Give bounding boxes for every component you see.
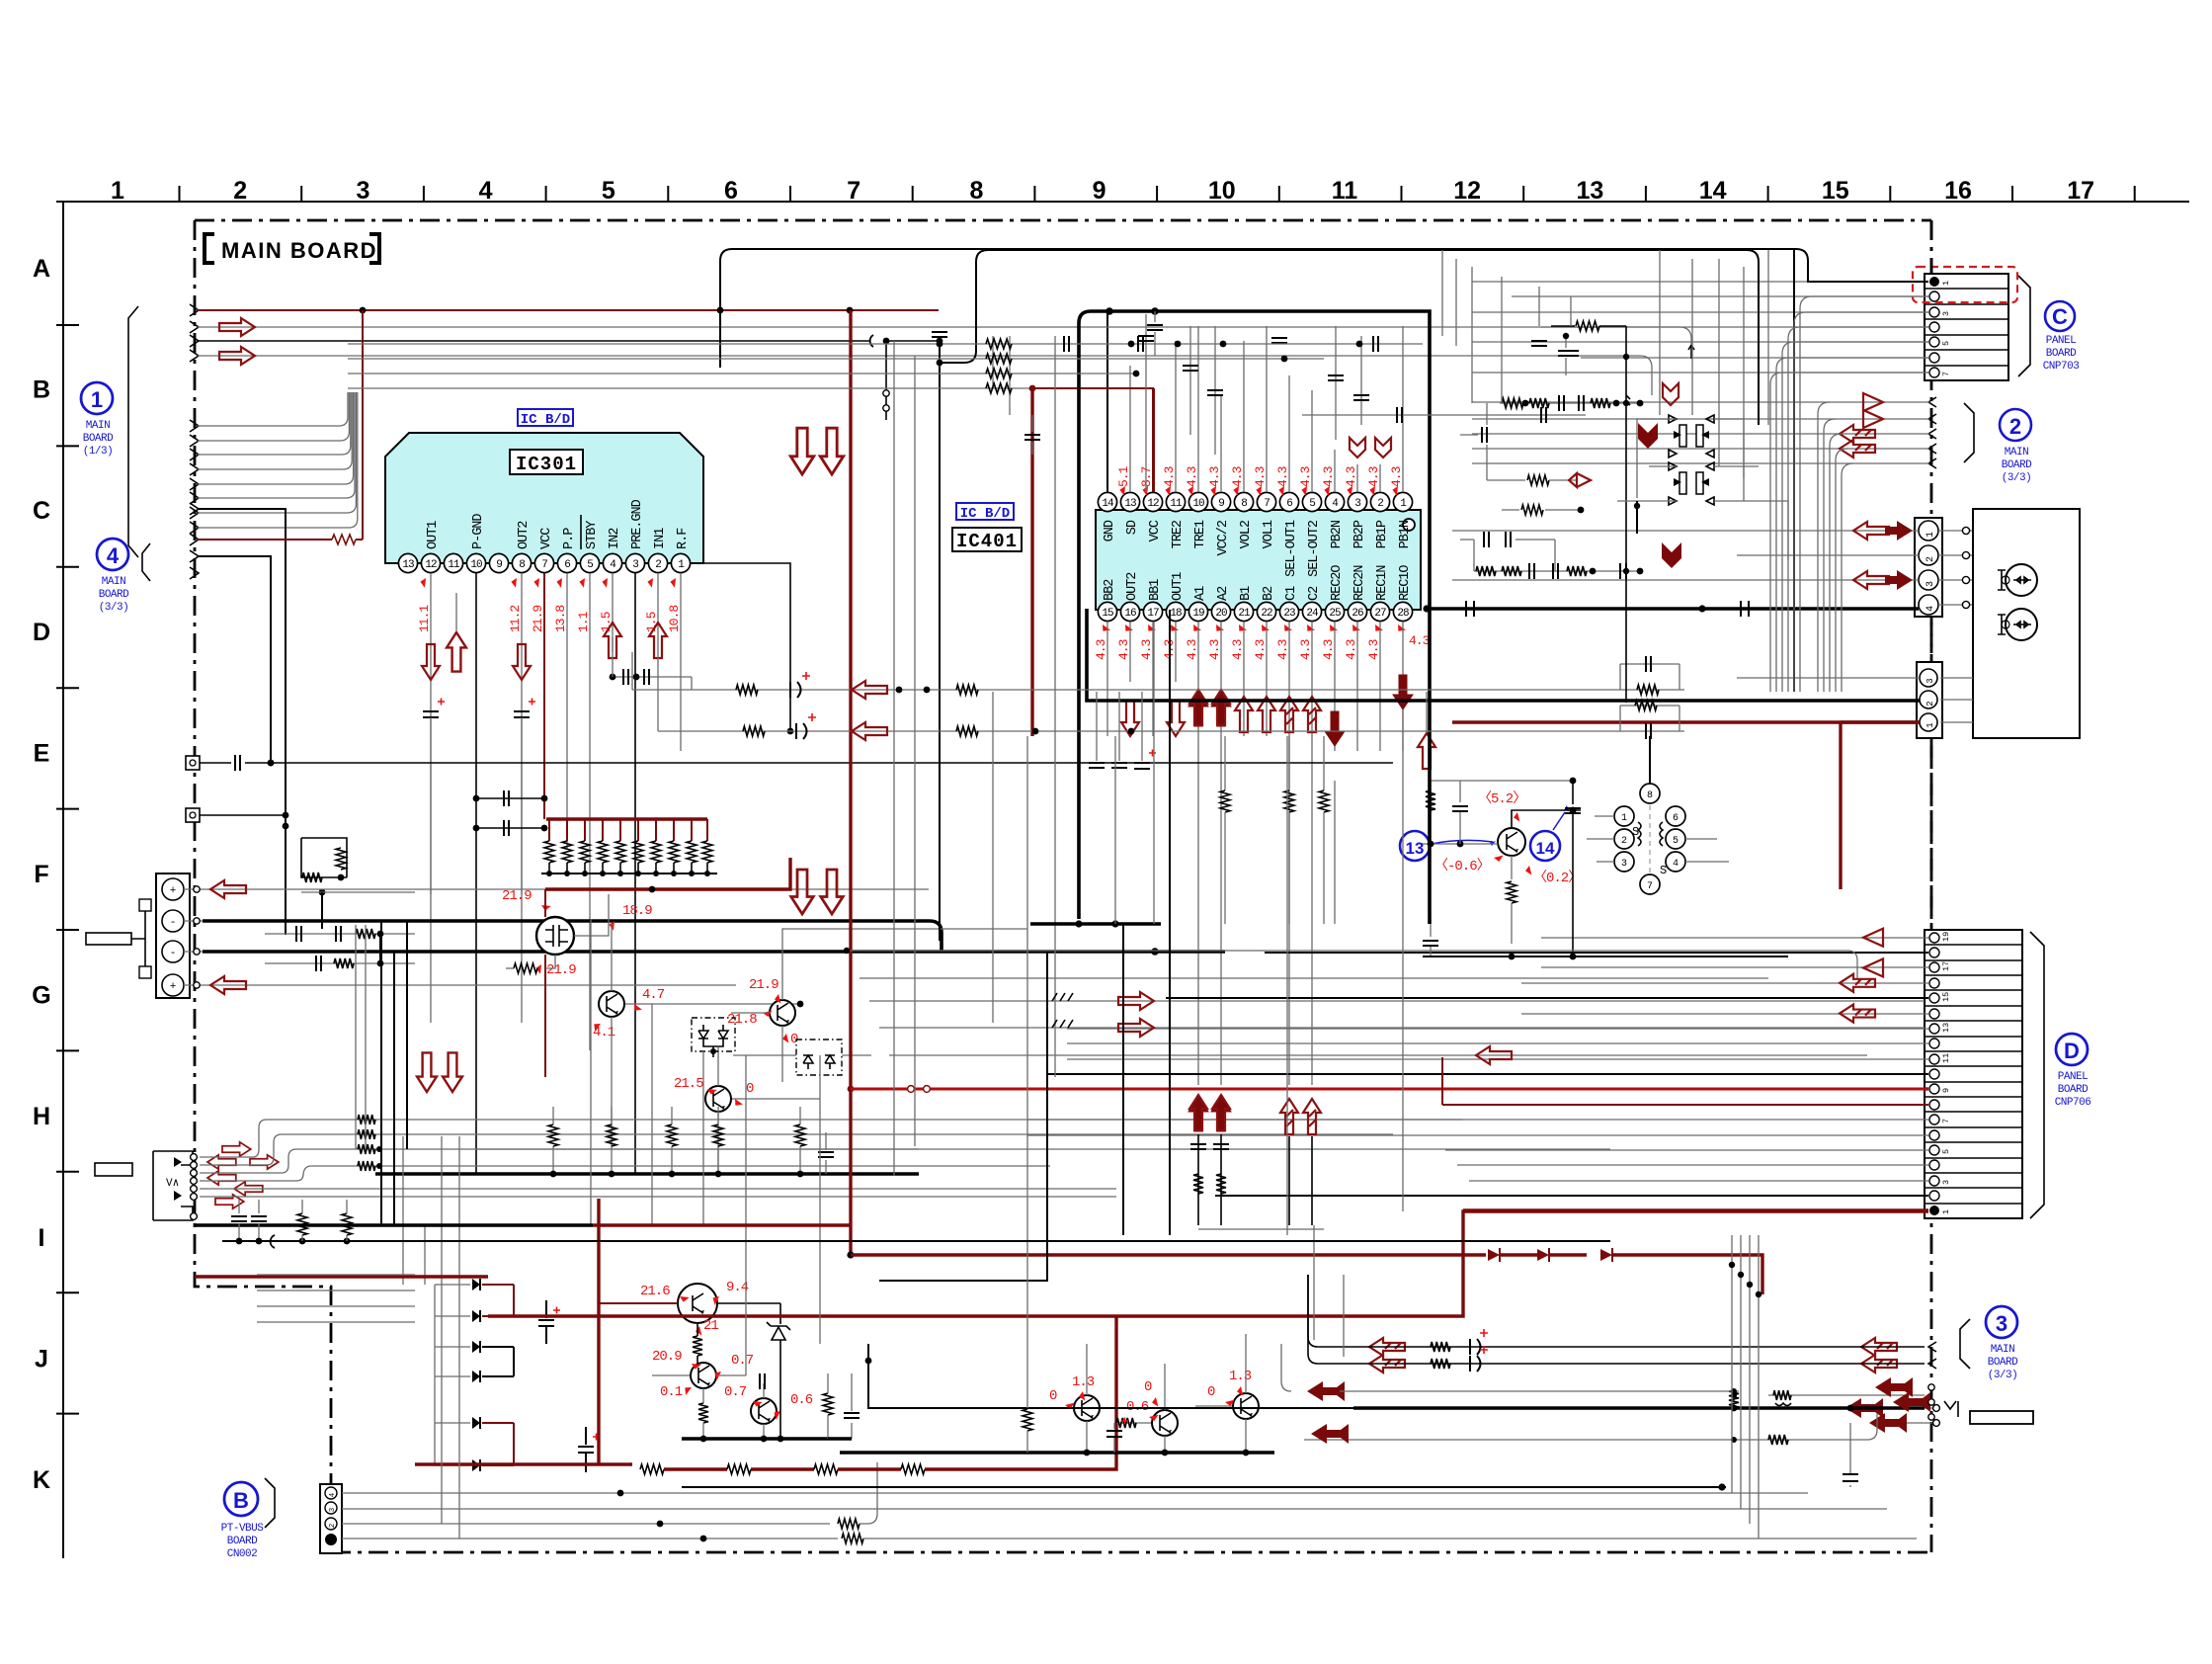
double down arrows x810 mid (791, 870, 844, 914)
svg-text:PB1N: PB1N (1398, 520, 1413, 548)
svg-text:2: 2 (233, 177, 247, 205)
brace for group 1 (128, 306, 138, 557)
svg-text:7: 7 (541, 559, 547, 571)
wire black top 3 (198, 335, 942, 347)
IC301 arrows below pins (422, 623, 667, 680)
svg-text:4: 4 (1673, 859, 1679, 870)
IC301 pin wires (431, 573, 681, 1174)
svg-text:IC401: IC401 (956, 531, 1018, 552)
svg-text:19: 19 (1192, 608, 1204, 620)
svg-text:12: 12 (1453, 177, 1481, 205)
svg-text:〈-0.6〉: 〈-0.6〉 (1434, 858, 1490, 874)
svg-text:9: 9 (1941, 1088, 1951, 1093)
transistor Q13 area (1400, 790, 1581, 944)
hatched arrow pair mid (1369, 1338, 1405, 1373)
svg-text:13: 13 (402, 559, 414, 571)
resistor row above IC401 (348, 336, 1423, 455)
svg-text:11: 11 (1332, 177, 1358, 205)
svg-text:IC301: IC301 (516, 454, 577, 475)
svg-text:0.6: 0.6 (790, 1392, 813, 1408)
svg-text:7: 7 (1264, 498, 1270, 510)
svg-text:4.3: 4.3 (1298, 466, 1313, 487)
svg-text:28: 28 (1397, 608, 1409, 620)
svg-text:7: 7 (847, 177, 860, 205)
IC401 top voltage values (1116, 465, 1404, 495)
svg-text:PANEL: PANEL (2046, 335, 2077, 347)
transistor Q503 (724, 1373, 813, 1439)
svg-text:B: B (233, 1488, 249, 1513)
bottom mid ground bus (840, 1408, 1274, 1456)
svg-text:REC2N: REC2N (1352, 565, 1367, 601)
svg-text:16: 16 (1124, 608, 1136, 620)
svg-text:9: 9 (1093, 177, 1106, 205)
svg-text:27: 27 (1374, 608, 1386, 620)
svg-text:3: 3 (1925, 581, 1936, 587)
svg-text:0: 0 (1049, 1388, 1057, 1404)
wire bundle 8 lines (198, 392, 358, 528)
svg-text:A1: A1 (1193, 586, 1208, 601)
svg-text:5: 5 (1941, 1149, 1951, 1154)
J-row signal lines (1308, 1275, 1925, 1372)
IC301 pin labels (426, 499, 691, 549)
resistor top x1603 (1551, 321, 1629, 703)
svg-text:4.3: 4.3 (1185, 466, 1199, 487)
electrolytic caps bottom (538, 1300, 600, 1472)
svg-text:S: S (1632, 825, 1639, 839)
svg-text:11: 11 (1941, 1053, 1951, 1063)
main board dash-dot boundary (195, 220, 1931, 1552)
svg-text:SEL-OUT2: SEL-OUT2 (1307, 520, 1322, 577)
svg-text:4.3: 4.3 (1253, 639, 1268, 660)
capacitor below IC301 pin12 (423, 699, 445, 1024)
cap x1585 (1558, 333, 1574, 375)
svg-text:C: C (33, 497, 50, 525)
svg-text:4.3: 4.3 (1253, 466, 1268, 487)
svg-text:4.3: 4.3 (1298, 639, 1313, 660)
svg-text:PB2N: PB2N (1330, 520, 1345, 548)
ruler row letters (32, 255, 50, 1494)
svg-text:S: S (1660, 864, 1667, 877)
transistor Q502 (652, 1349, 754, 1439)
transistor Q304 (727, 929, 1027, 1082)
dark red vertical x1045 (1030, 388, 1033, 736)
svg-text:C: C (2052, 304, 2068, 329)
svg-text:15: 15 (1941, 992, 1951, 1002)
signal line R to IC401 (658, 652, 1684, 740)
svg-text:REC1N: REC1N (1375, 565, 1390, 601)
circled 1 main board label (81, 382, 114, 458)
thick black box around IC401 (1079, 307, 1430, 924)
svg-text:23: 23 (1283, 608, 1295, 620)
connector CNP703 panel board (1925, 274, 2030, 380)
svg-text:PB1P: PB1P (1375, 520, 1390, 548)
diode ladder bottom left (435, 1279, 514, 1471)
svg-text:7: 7 (1647, 881, 1653, 892)
svg-text:1: 1 (1941, 281, 1951, 286)
H row wires (200, 1115, 1610, 1197)
svg-text:4.3: 4.3 (1275, 639, 1290, 660)
bottom mid transistors Q60x (1027, 1334, 1259, 1453)
svg-text:E: E (34, 739, 50, 767)
svg-text:〈0.2〉: 〈0.2〉 (1533, 870, 1581, 886)
ground bus mid (375, 1107, 919, 1177)
svg-text:14: 14 (1536, 839, 1555, 858)
speaker box (1973, 509, 2080, 738)
mid verticals descending to bottom (403, 622, 1403, 1539)
H row red arrows (207, 1142, 279, 1208)
svg-text:1.3: 1.3 (1072, 1374, 1095, 1390)
svg-text:BOARD: BOARD (227, 1536, 258, 1547)
red feed bottom cluster (597, 1199, 600, 1464)
IC401 bottom pins 15-28 (1098, 602, 1412, 621)
svg-text:VCC: VCC (1148, 520, 1163, 541)
svg-text:4.3: 4.3 (1162, 466, 1177, 487)
red bus to CNP706 pin1 (488, 1211, 1928, 1316)
double down arrows x810 top (790, 428, 843, 474)
IC401 bottom arrows (1121, 675, 1413, 746)
svg-text:17: 17 (2067, 177, 2094, 205)
IC401 top pin wires (1107, 311, 1403, 492)
svg-text:H: H (33, 1103, 50, 1130)
IC401 top pins 1-14 (1098, 492, 1412, 511)
svg-text:21.9: 21.9 (531, 606, 545, 632)
svg-text:REC2O: REC2O (1330, 565, 1345, 601)
svg-text:IC B/D: IC B/D (521, 412, 570, 428)
svg-text:MAIN: MAIN (102, 576, 125, 588)
svg-text:F: F (34, 861, 48, 888)
F-row drop verticals (356, 920, 407, 1225)
svg-text:5: 5 (602, 177, 615, 205)
svg-text:13: 13 (1576, 177, 1603, 205)
svg-text:3: 3 (356, 177, 369, 205)
F row wires (203, 880, 1225, 994)
svg-text:1: 1 (1941, 1209, 1951, 1214)
RC network top right B (1460, 505, 1643, 579)
svg-text:BB2: BB2 (1103, 579, 1117, 601)
circled 4 main board label (97, 539, 150, 614)
opto pair A (1669, 415, 1714, 458)
IC401 bottom pin wires (1107, 622, 1403, 1085)
svg-text:SEL-OUT1: SEL-OUT1 (1284, 520, 1299, 577)
svg-text:STBY: STBY (585, 521, 600, 549)
grey return y1451 (1304, 1413, 1877, 1445)
nested top frame line (937, 250, 1759, 425)
svg-text:6: 6 (724, 177, 738, 205)
svg-text:0.1: 0.1 (660, 1384, 683, 1400)
svg-text:2: 2 (655, 559, 661, 571)
connector CN002 (320, 1484, 342, 1553)
caps P-GND to VCC (473, 790, 548, 836)
left edge chevron nodes (190, 304, 199, 579)
bottom cluster ground bus (682, 1373, 860, 1442)
black vertical x1068 (1054, 336, 1056, 1077)
svg-text:IN1: IN1 (653, 528, 668, 549)
IC301 pin voltage values (417, 577, 682, 633)
headphone jack bottom right (1845, 1398, 2033, 1433)
svg-text:1: 1 (111, 177, 124, 205)
svg-text:1: 1 (1621, 813, 1627, 824)
svg-text:17: 17 (1941, 961, 1951, 971)
long horizontals lower board (195, 1225, 1610, 1277)
audio control IC IC401 (952, 503, 1421, 610)
svg-text:10: 10 (470, 559, 482, 571)
MOSFET Q302 (502, 888, 652, 1077)
signal line L to IC401 (632, 652, 1684, 699)
svg-text:4.3: 4.3 (1094, 639, 1108, 660)
svg-text:6: 6 (564, 559, 570, 571)
circled D panel board label (2055, 1034, 2091, 1109)
wires into CNP703 (1472, 282, 1928, 373)
svg-text:0.7: 0.7 (724, 1384, 747, 1400)
svg-text:PB2P: PB2P (1352, 520, 1367, 548)
solid arrows mid bottom (1281, 1344, 1739, 1401)
svg-text:10: 10 (1208, 177, 1236, 205)
svg-text:21.9: 21.9 (546, 962, 576, 978)
vertical forest upper mid (894, 250, 1768, 692)
svg-text:1.3: 1.3 (1229, 1369, 1252, 1384)
svg-text:1.5: 1.5 (644, 612, 659, 632)
thick black rounded frame top (717, 249, 1928, 368)
svg-text:13: 13 (1941, 1023, 1951, 1033)
svg-text:CN002: CN002 (227, 1548, 258, 1560)
svg-text:18.9: 18.9 (622, 903, 652, 919)
ruler frame (56, 186, 2189, 1558)
svg-text:BOARD: BOARD (83, 433, 114, 445)
svg-text:4.3: 4.3 (1321, 466, 1336, 487)
svg-text:IC B/D: IC B/D (960, 506, 1010, 522)
opto pair B (1669, 462, 1714, 505)
svg-text:4.3: 4.3 (1321, 639, 1336, 660)
svg-text:PANEL: PANEL (2058, 1071, 2089, 1083)
svg-text:5.1: 5.1 (1116, 465, 1131, 487)
CNP703 fan wires (1770, 296, 1928, 692)
mid right bundle (844, 948, 1925, 1064)
E-row sensor node 1 (186, 755, 1393, 771)
svg-text:4.3: 4.3 (1230, 466, 1245, 487)
svg-text:21.8: 21.8 (727, 1012, 757, 1028)
svg-text:B2: B2 (1262, 586, 1276, 601)
svg-text:4.3: 4.3 (1366, 639, 1381, 660)
svg-text:4.3: 4.3 (1185, 639, 1199, 660)
op-amp IC IC301 (385, 409, 703, 563)
svg-text:11.1: 11.1 (417, 605, 432, 632)
wires into CNP706 (1027, 929, 1928, 1210)
tiny up arrow (1688, 345, 1694, 359)
svg-text:24: 24 (1306, 608, 1319, 620)
svg-text:OUT1: OUT1 (426, 521, 441, 549)
svg-text:P-GND: P-GND (471, 514, 486, 549)
red wire 3pin-1 (1841, 722, 1920, 889)
black thick L bottom mid (865, 1344, 1353, 1408)
svg-text:6: 6 (1673, 813, 1679, 824)
svg-text:8: 8 (1241, 498, 1247, 510)
red dashed highlight box on CNP703 (1913, 267, 2017, 302)
svg-text:8: 8 (519, 559, 525, 571)
svg-text:26: 26 (1352, 608, 1363, 620)
svg-text:OUT1: OUT1 (1171, 572, 1186, 601)
IC401 bottom voltage values (1094, 623, 1430, 660)
svg-text:3: 3 (1941, 311, 1951, 316)
connector CNP706 panel board (1925, 930, 2044, 1218)
wire R.F drop (690, 563, 793, 734)
svg-text:(3/3): (3/3) (99, 602, 129, 614)
svg-text:VCC: VCC (539, 528, 554, 549)
IC401 bottom pin labels (1103, 565, 1413, 601)
svg-text:4.3: 4.3 (1366, 466, 1381, 487)
wire red top bus (198, 307, 939, 314)
connector 3-pin to panel (1087, 609, 1973, 738)
svg-text:4: 4 (329, 1492, 337, 1497)
wires 4-pin connector (1423, 521, 1973, 617)
svg-text:B1: B1 (1239, 586, 1254, 601)
svg-text:21.9: 21.9 (749, 977, 778, 993)
svg-text:10.8: 10.8 (667, 606, 682, 632)
svg-text:8: 8 (1647, 790, 1653, 801)
black vertical x951 (883, 332, 947, 941)
thick verticals mid (879, 610, 1170, 1281)
svg-text:+: + (170, 981, 177, 993)
zener diode bottom (767, 1303, 790, 1439)
svg-text:4.3: 4.3 (1389, 466, 1404, 487)
svg-text:21.5: 21.5 (674, 1076, 703, 1092)
svg-text:I: I (39, 1224, 45, 1252)
svg-text:19: 19 (1941, 932, 1951, 942)
hollow chevron arrow up x1691 (1663, 383, 1679, 405)
svg-text:4: 4 (1925, 606, 1936, 612)
svg-text:P.P: P.P (562, 528, 577, 549)
coupling caps under IC301 (610, 637, 692, 690)
svg-text:7: 7 (1941, 1119, 1951, 1123)
svg-text:4.3: 4.3 (1116, 639, 1131, 660)
svg-text:1.1: 1.1 (576, 611, 591, 632)
svg-text:12: 12 (425, 559, 437, 571)
IC401 top pin labels (1103, 520, 1413, 577)
svg-text:OUT2: OUT2 (517, 521, 532, 549)
vertical forest bottom right (1729, 1235, 1761, 1539)
svg-text:11: 11 (1170, 498, 1183, 510)
thick bus to right edge (1353, 1377, 1934, 1420)
svg-text:17: 17 (1147, 608, 1159, 620)
svg-text:TRE1: TRE1 (1193, 520, 1208, 548)
svg-text:MAIN: MAIN (86, 420, 110, 432)
svg-text:OUT2: OUT2 (1125, 572, 1140, 601)
svg-text:CNP703: CNP703 (2043, 361, 2080, 373)
fan wires to chevrons-2 (1818, 402, 1853, 692)
up arrow x462 C-row (447, 593, 466, 672)
svg-text:3: 3 (1941, 1180, 1951, 1185)
svg-text:-: - (170, 948, 177, 959)
CN002 wires (342, 1462, 1917, 1543)
svg-text:3: 3 (1996, 1311, 2007, 1336)
svg-text:20: 20 (1215, 608, 1227, 620)
dual diode package D301 (692, 1018, 735, 1057)
svg-text:BOARD: BOARD (99, 589, 129, 601)
svg-text:〈5.2〉: 〈5.2〉 (1478, 790, 1525, 807)
ground bus right of IC401 (1030, 920, 1161, 927)
svg-text:(3/3): (3/3) (2002, 472, 2032, 484)
svg-text:BB1: BB1 (1148, 579, 1163, 601)
Q13 bias network (1423, 778, 1788, 960)
RC network top right A (1460, 395, 1643, 487)
caps on top verticals (1138, 336, 1579, 400)
arrows below IC401 mid (1188, 1095, 1324, 1229)
svg-text:VCC/2: VCC/2 (1216, 520, 1231, 555)
svg-text:REC1O: REC1O (1398, 565, 1413, 601)
bottom long greys K row (0, 0, 1, 1)
svg-text:1.5: 1.5 (599, 612, 614, 632)
svg-text:2: 2 (1925, 701, 1935, 706)
double down arrows x430 H-row (417, 1052, 462, 1092)
svg-text:A2: A2 (1216, 586, 1231, 601)
svg-text:4.3: 4.3 (1230, 639, 1245, 660)
circled B PT-VBUS board label (221, 1478, 275, 1560)
resistor drops under IC401 (1220, 736, 1329, 924)
svg-text:3: 3 (1354, 498, 1360, 510)
svg-text:14: 14 (1699, 177, 1727, 205)
svg-text:5: 5 (1309, 498, 1315, 510)
dark red vertical bus x861 (847, 310, 854, 1259)
svg-text:3: 3 (1925, 678, 1935, 683)
H-row fan resistors (257, 1275, 415, 1322)
svg-text:22: 22 (1261, 608, 1272, 620)
svg-text:5: 5 (587, 559, 593, 571)
svg-text:5: 5 (1941, 341, 1951, 346)
svg-text:A: A (33, 255, 50, 283)
dark red horiz y393 (1000, 385, 1154, 492)
svg-text:1: 1 (1925, 722, 1935, 727)
svg-text:4.3: 4.3 (1344, 639, 1358, 660)
svg-text:9: 9 (1218, 498, 1224, 510)
wire grey top 2 (198, 318, 1691, 356)
svg-text:J: J (35, 1345, 48, 1373)
svg-text:-: - (170, 917, 177, 929)
svg-text:4.3: 4.3 (1207, 639, 1222, 660)
svg-text:MAIN BOARD: MAIN BOARD (221, 238, 377, 263)
svg-text:4.3: 4.3 (1344, 466, 1358, 487)
svg-text:0: 0 (746, 1081, 754, 1097)
svg-text:PRE.GND: PRE.GND (630, 499, 645, 549)
connector F-row 4pin (156, 874, 203, 998)
MAIN BOARD title (205, 234, 379, 263)
svg-text:BOARD: BOARD (2046, 348, 2077, 360)
svg-text:11.2: 11.2 (508, 606, 523, 632)
red arrows above Q13 (1418, 692, 1435, 769)
ruler column numbers (111, 177, 2094, 205)
svg-text:2: 2 (1925, 556, 1936, 562)
dash-dot between connectors (1930, 617, 1933, 930)
svg-text:4.3: 4.3 (1139, 639, 1154, 660)
svg-text:C2: C2 (1307, 586, 1322, 601)
svg-text:9: 9 (496, 559, 502, 571)
red VCC wire from IC301 (545, 858, 790, 892)
solid chevron arrows top right (1638, 423, 1681, 568)
svg-text:21: 21 (1238, 608, 1251, 620)
capacitor below IC301 pin8 (514, 699, 535, 1024)
svg-text:4.3: 4.3 (1275, 466, 1290, 487)
svg-text:IN2: IN2 (608, 528, 622, 549)
wire grey top 4 (198, 347, 1652, 395)
svg-text:4: 4 (107, 543, 120, 568)
svg-text:3: 3 (329, 1507, 337, 1512)
transistor Q305 (674, 1047, 820, 1174)
svg-text:21.9: 21.9 (502, 888, 532, 904)
svg-text:18: 18 (1170, 608, 1182, 620)
left lower caps bank (231, 1200, 352, 1244)
svg-text:12: 12 (1147, 498, 1159, 510)
svg-text:TRE2: TRE2 (1171, 520, 1186, 548)
svg-text:1: 1 (1925, 532, 1936, 538)
node chevrons to main board 3/3 (1472, 393, 1936, 468)
